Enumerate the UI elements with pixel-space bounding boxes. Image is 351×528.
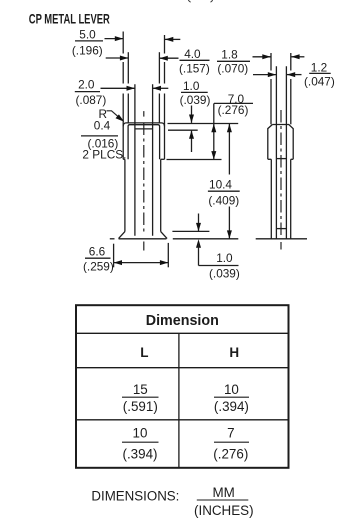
svg-text:Dimension: Dimension [146, 313, 219, 329]
svg-text:10: 10 [133, 425, 148, 440]
svg-text:1.8: 1.8 [221, 48, 238, 62]
svg-text:(.394): (.394) [123, 446, 158, 461]
side view: inner bars [276, 158, 286, 160]
front view: body top face with R0.4 rounded corners [123, 123, 164, 126]
extension line top face right [168, 123, 239, 125]
front view: shaft outer edges [124, 159, 126, 231]
svg-text:10: 10 [224, 382, 239, 397]
front view: collar step line (1.0 below face) [135, 128, 153, 130]
svg-text:(.259): (.259) [83, 260, 114, 274]
front view: left prong inner line / 4.0 extension [127, 52, 129, 123]
front view: baseline [110, 238, 239, 240]
svg-text:H: H [229, 345, 239, 360]
dimension 10.4 (.409) [208, 124, 240, 239]
dimension 1.0 (.039) upper [180, 79, 211, 152]
side view: baseline [256, 238, 307, 240]
front view: center line [143, 111, 145, 252]
front view: collar step ticks [123, 158, 125, 160]
extension line flare start right [172, 230, 209, 232]
side view: center line [280, 110, 282, 250]
dimension 1.2 (.047) [253, 61, 335, 89]
svg-text:MM: MM [213, 485, 235, 500]
R leader and label [99, 107, 125, 122]
dimension 1.0 (.039) lower [196, 214, 240, 281]
dimension table [76, 305, 289, 468]
front view: left prong outer line / 5.0 extension [122, 32, 124, 160]
footer DIMENSIONS: MM/(INCHES) [91, 485, 253, 518]
side view: blade outer left / 1.8 extension [270, 53, 272, 124]
svg-text:(.196): (.196) [72, 43, 103, 57]
svg-text:L: L [140, 345, 148, 360]
svg-text:(.276): (.276) [213, 446, 248, 461]
svg-text:(.039): (.039) [180, 93, 211, 107]
svg-text:(.591): (.591) [123, 399, 158, 414]
svg-text:(INCHES): (INCHES) [194, 503, 254, 518]
side view: collar outline [268, 125, 293, 160]
front view: left slot wall / shaft inner left [134, 84, 136, 235]
extension line shoulder right [167, 159, 222, 161]
svg-text:(.276): (.276) [218, 103, 249, 117]
dimension 1.8 (.070) [217, 48, 304, 76]
svg-text:(.157): (.157) [179, 62, 210, 76]
svg-text:2.0: 2.0 [78, 77, 95, 91]
svg-text:(.039): (.039) [209, 266, 240, 280]
svg-text:(.087): (.087) [75, 93, 106, 107]
front view: collar rim inner edge [128, 125, 160, 160]
svg-text:DIMENSIONS:: DIMENSIONS: [91, 488, 179, 503]
svg-text:(.394): (.394) [214, 399, 249, 414]
svg-text:10.4: 10.4 [209, 178, 232, 192]
svg-text:(.047): (.047) [304, 75, 335, 89]
left 4.0 arrow [106, 56, 129, 61]
svg-text:(.070): (.070) [217, 62, 248, 76]
dimension 5.0 (.196) [72, 28, 180, 58]
side view: blade outer right / 1.8 extension [290, 53, 292, 124]
side view: blade inner left / 1.2 extension [275, 66, 277, 239]
front view: right prong outer line / 5.0 extension [164, 35, 166, 159]
side view: shaft outer edges [270, 159, 272, 239]
svg-text:(.409): (.409) [208, 194, 239, 208]
cropped label fragment top [188, 0, 212, 2]
front view: bottom flare diagonals [119, 232, 125, 239]
front view: right prong inner line / 4.0 extension [158, 52, 160, 123]
svg-text:CP METAL LEVER: CP METAL LEVER [29, 11, 110, 27]
svg-text:6.6: 6.6 [89, 245, 106, 259]
svg-text:1.0: 1.0 [216, 251, 233, 265]
dimension 2.0 (.087) [75, 77, 169, 107]
svg-text:15: 15 [133, 382, 148, 397]
svg-text:1.0: 1.0 [183, 79, 200, 93]
0.4 (.016) 2 PLCS label [81, 119, 126, 162]
dimension 4.0 (.157) [159, 47, 209, 76]
svg-text:5.0: 5.0 [79, 28, 96, 42]
front view: right slot wall / shaft inner right [152, 84, 154, 235]
svg-text:7: 7 [227, 425, 234, 440]
svg-text:1.2: 1.2 [311, 61, 327, 75]
dimension 6.6 (.259) [83, 243, 168, 274]
extension line collar step small right [168, 129, 198, 131]
svg-text:2 PLCS.: 2 PLCS. [82, 147, 126, 161]
svg-text:4.0: 4.0 [184, 47, 201, 61]
side view: blade inner right / 1.2 extension [285, 66, 287, 239]
svg-text:0.4: 0.4 [94, 119, 111, 133]
side view: collar step ticks [268, 158, 272, 160]
dimension 7.0 (.276) [211, 92, 253, 160]
